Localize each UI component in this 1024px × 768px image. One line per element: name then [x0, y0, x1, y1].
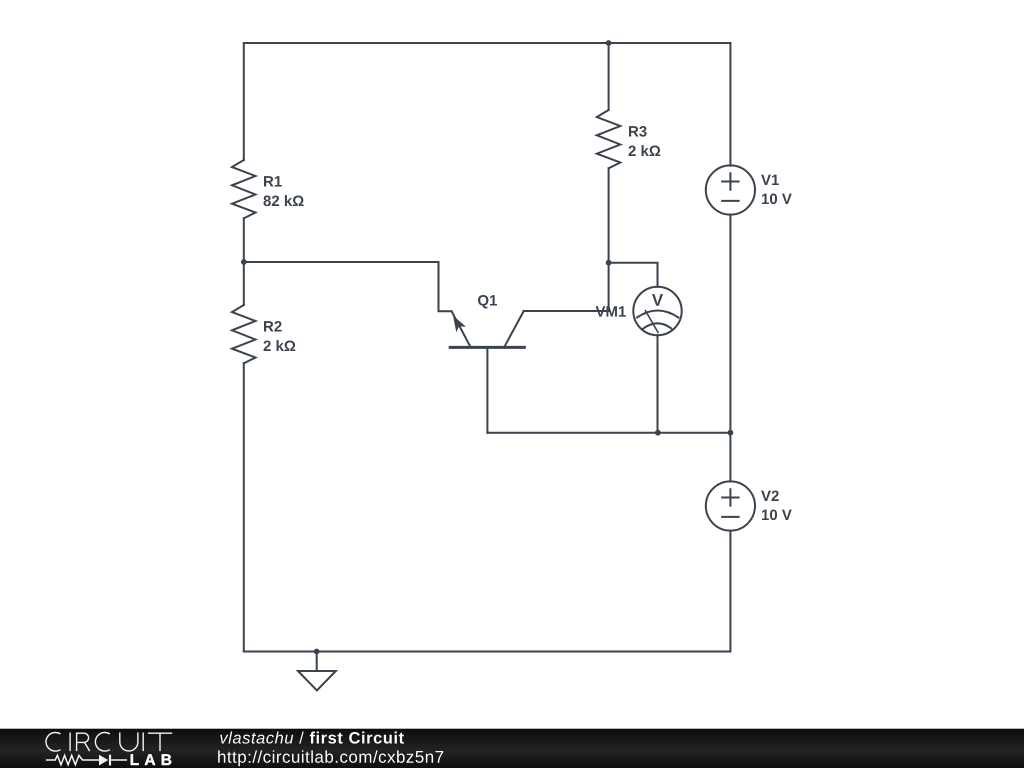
wire left rail top to R1: [243, 43, 245, 160]
transistor Q1 base bar: [450, 346, 524, 349]
voltmeter V letter: [652, 294, 663, 306]
logo diode bar: [109, 755, 111, 766]
label Q1: [478, 295, 497, 308]
ground stem: [316, 652, 318, 671]
voltage source V2 circle: [706, 481, 755, 530]
resistor R2: [232, 305, 256, 363]
voltmeter scale arc 2: [643, 323, 671, 328]
logo LAB text: [131, 754, 172, 765]
label V1: [761, 175, 779, 185]
voltmeter VM1 circle: [633, 287, 681, 335]
wire base net node B to Q1 emitter: [244, 262, 452, 311]
node C R3 VM1 junction: [606, 260, 612, 266]
node B R1 R2 base junction: [241, 259, 247, 265]
wire Q1 collector to corner: [524, 310, 609, 312]
logo letter I: [69, 733, 71, 752]
logo resistor squiggle: [46, 755, 99, 764]
wire right rail top to V1: [729, 43, 731, 166]
wire R3 bottom to node C: [608, 168, 610, 262]
footer separator slash: [299, 732, 304, 744]
V1 plus and minus signs: [722, 173, 738, 201]
footer author name vlastachu: [220, 732, 293, 744]
resistor R1: [232, 160, 256, 218]
wire R1 bottom to node B: [243, 218, 245, 262]
footer bar: [0, 729, 1024, 768]
resistor R3: [597, 110, 621, 168]
transistor Q1 emitter diagonal: [452, 311, 471, 347]
node D VM1 bottom junction: [655, 430, 661, 436]
logo diode triangle: [99, 755, 108, 766]
label V1 value 10 V: [762, 194, 792, 205]
logo letter R: [77, 733, 90, 751]
label VM1: [596, 306, 626, 316]
transistor Q1 collector diagonal: [504, 311, 523, 347]
wire VM1 bottom to node D: [657, 335, 659, 433]
transistor Q1 base stem: [486, 347, 488, 432]
ground triangle: [298, 671, 336, 690]
logo diode lead: [111, 759, 127, 761]
wire R3 branch from top rail: [608, 43, 610, 110]
wire V1 bottom to node E: [729, 215, 731, 433]
label R1 value 82 kOhm: [263, 195, 303, 206]
label R2: [264, 321, 282, 331]
label R3 value 2 kOhm: [629, 145, 661, 156]
transistor Q1 emitter arrow: [453, 316, 466, 333]
label V2 value 10 V: [762, 510, 792, 521]
label V2: [761, 491, 779, 501]
logo letter U: [120, 733, 138, 751]
wire VM1 top branch: [609, 263, 658, 287]
wire top rail: [244, 42, 731, 44]
logo letter C: [95, 733, 110, 752]
wire node E to V2 top: [729, 433, 731, 482]
label R2 value 2 kOhm: [264, 340, 296, 351]
voltage source V1 circle: [706, 165, 755, 214]
wire R2 bottom to bottom rail: [243, 363, 245, 651]
footer url: [218, 750, 443, 766]
logo letter I: [142, 733, 144, 752]
wire V2 bottom to bottom rail: [729, 531, 731, 652]
voltmeter scale arc 1: [637, 311, 678, 318]
logo letter T: [148, 733, 172, 751]
node A top rail R3 junction: [606, 40, 612, 46]
label R3: [629, 126, 647, 137]
logo letter C: [46, 733, 61, 752]
wire node B to R2 top: [243, 262, 245, 305]
voltmeter needle: [645, 311, 658, 333]
node E V1 V2 junction: [728, 430, 734, 436]
node F ground junction: [314, 649, 320, 655]
wire node C down to collector corner: [608, 263, 610, 311]
wire bottom rail: [244, 651, 731, 653]
V2 plus and minus signs: [722, 489, 738, 517]
wire bottom middle net Q1 base to node E: [487, 432, 730, 434]
footer title first Circuit: [310, 732, 404, 744]
label R1: [264, 176, 282, 186]
